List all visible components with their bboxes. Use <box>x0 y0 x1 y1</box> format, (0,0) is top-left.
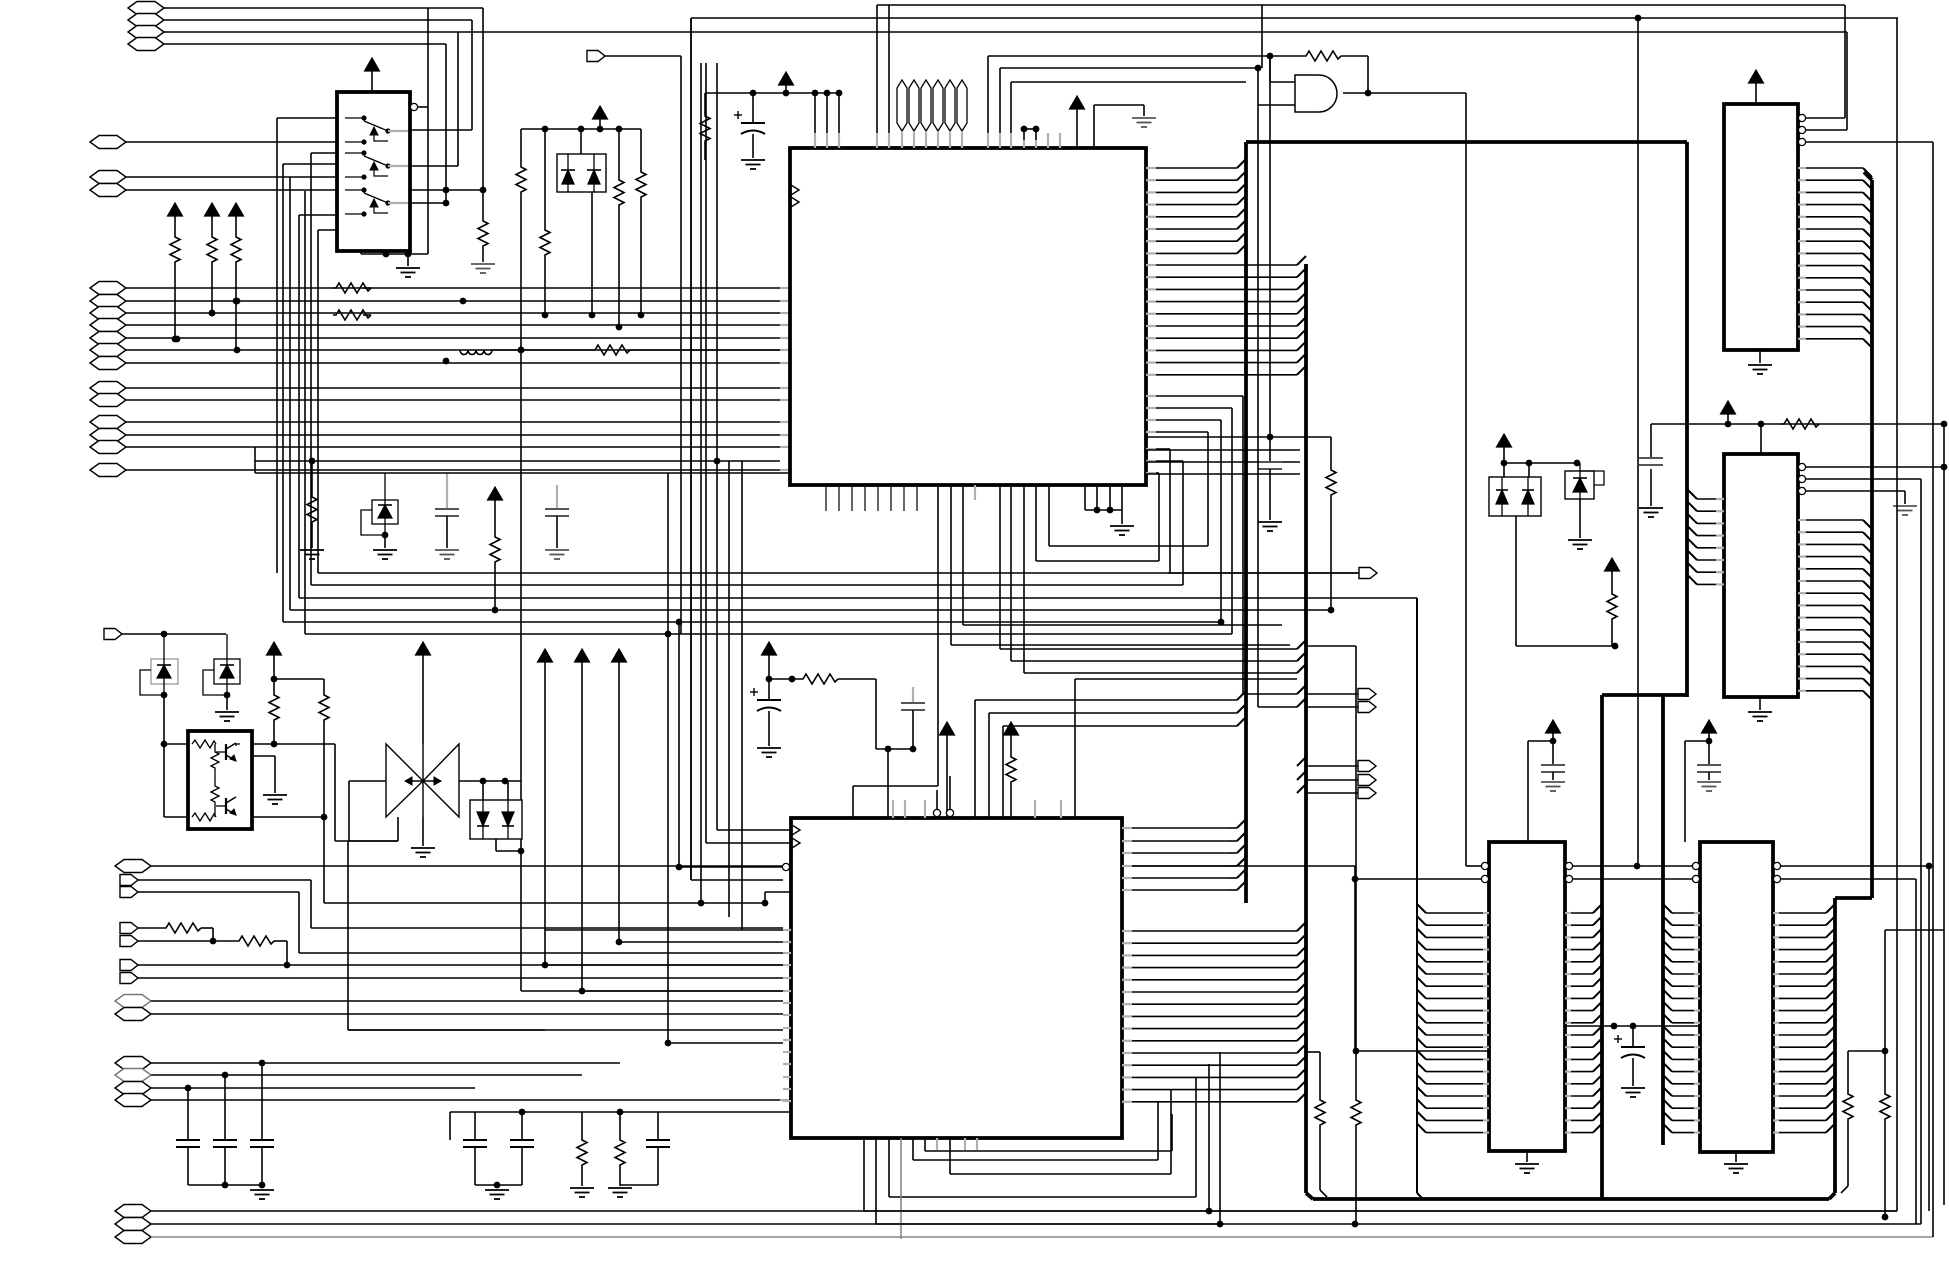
capacitor C13 <box>1697 741 1721 780</box>
connector J22 <box>115 860 1358 883</box>
ground R25 <box>570 1188 594 1197</box>
pin bubbles U4 <box>1798 463 1944 504</box>
wire net row 866 <box>1573 863 1932 870</box>
power arrow VCC U6 <box>1546 720 1561 744</box>
wire U1 out5 <box>410 202 447 204</box>
power arrow VCC D1 <box>593 106 608 129</box>
resistor R26 <box>615 1112 625 1186</box>
resistor R7 <box>207 235 217 316</box>
triac Q2 <box>386 744 459 817</box>
connector J33 <box>115 1082 475 1095</box>
capacitor C5 <box>213 1075 237 1188</box>
wire <box>1075 679 1297 818</box>
wire v668 <box>667 473 669 634</box>
wire C4 gnd rail <box>188 1185 262 1188</box>
zener box D4 <box>140 634 178 698</box>
wire v701 <box>698 63 705 906</box>
fan wire <box>1146 396 1297 694</box>
power rail caps U5 <box>762 642 801 700</box>
ground wire <box>1893 506 1917 515</box>
connector J14 <box>90 357 790 370</box>
bus entries U4 right <box>1798 520 1872 700</box>
off-page arrow OP2 <box>1306 689 1376 700</box>
crystal pins U2 <box>897 80 967 148</box>
resistor R13 <box>700 114 710 160</box>
resistor R5 <box>636 170 646 318</box>
wire <box>704 93 706 114</box>
wire <box>1685 741 1709 842</box>
wire v691 <box>691 18 783 880</box>
ground U2 bottom <box>1110 526 1134 535</box>
wire D1 out <box>589 192 596 318</box>
wire Q2 left loop <box>349 781 398 841</box>
off-page arrow OP5 <box>1306 775 1376 786</box>
bus entries U6 right <box>1565 904 1602 1133</box>
connector J24 <box>120 887 783 954</box>
IC U7 <box>1700 842 1773 1152</box>
resistor R21 inline <box>163 923 216 944</box>
wire U2 bot gnd <box>1085 485 1122 524</box>
connector J3 <box>128 26 1847 39</box>
wire Q2 right <box>459 778 521 785</box>
wire net row 879 <box>1355 863 1916 1051</box>
wire U5 pin4 <box>762 892 791 906</box>
power arrow VCC V7 <box>612 649 627 945</box>
connector J6 <box>90 171 337 184</box>
ground R26 <box>608 1188 632 1197</box>
capacitor C10 <box>494 1112 534 1188</box>
wire <box>1915 879 1917 1224</box>
capacitor C15 <box>435 473 459 559</box>
power arrow VCC Q2 <box>416 642 431 744</box>
wire bottom right <box>1211 1210 1897 1212</box>
connector J26 <box>120 936 236 947</box>
bus left vertical <box>1244 142 1248 903</box>
IC U3 <box>1724 104 1798 350</box>
wire <box>1011 82 1246 148</box>
capacitor C8 <box>876 687 925 818</box>
wire <box>989 704 1246 818</box>
bus wire row <box>318 572 1358 574</box>
pin bubbles U5 top <box>933 776 953 817</box>
power arrow VCC R6 <box>168 203 183 235</box>
wire loop right <box>1941 421 1948 471</box>
connector J17 <box>90 416 790 429</box>
capacitor C9 <box>463 1112 487 1185</box>
junction <box>174 298 467 365</box>
power arrow VCC R18 <box>488 487 503 535</box>
bus vertical 1872 <box>1835 172 1872 898</box>
power arrow VCC R8 <box>229 203 244 235</box>
electrolytic cap C14 + <box>1565 1023 1700 1086</box>
wire v717 <box>716 63 718 830</box>
pin bubbles U7 <box>1692 862 1780 882</box>
wire v742 <box>741 461 743 930</box>
power arrow VCC R19 <box>267 642 282 682</box>
resistor R1 <box>478 219 488 262</box>
capacitor C3 <box>1639 458 1663 506</box>
bus entries U2 right top <box>1146 159 1246 253</box>
bus wire row <box>290 607 1334 614</box>
resistor R23 <box>1006 755 1016 818</box>
ground C12 <box>1541 782 1565 791</box>
wire <box>1021 126 1028 148</box>
IC U4 <box>1724 454 1798 697</box>
wire R5 <box>640 129 642 170</box>
connector J20 <box>90 464 790 477</box>
wire <box>1003 717 1246 818</box>
resistor R28 <box>1351 1051 1361 1224</box>
bus entries U2 right to 1306 <box>1146 256 1306 375</box>
connector J7 <box>90 184 337 197</box>
Q1 internals <box>192 740 240 821</box>
connector J31 <box>115 1057 620 1070</box>
clock chevrons U5 <box>792 825 800 848</box>
resistor R6 <box>170 235 180 342</box>
wire bundle v <box>318 230 337 573</box>
wire 1356 cont <box>1306 645 1356 647</box>
wire <box>348 841 545 1030</box>
inductor L1 inline <box>460 347 592 355</box>
ground U2 top <box>1132 118 1156 127</box>
resistor R18 <box>490 535 500 610</box>
wire R4 <box>618 129 620 178</box>
wires U5 bottom <box>864 1052 1220 1224</box>
wire gray drop <box>900 1138 902 1239</box>
wire U2 right long <box>1146 434 1331 468</box>
wire <box>1848 930 1944 1054</box>
wire 1356 vert <box>1353 646 1489 1054</box>
ground U7 <box>1724 1152 1748 1173</box>
wire vert 1270 <box>1269 56 1271 437</box>
ground R1 <box>471 264 495 273</box>
wire row 598 <box>299 597 1417 599</box>
fan wire <box>1146 449 1170 573</box>
resistor R12 inline <box>592 345 780 355</box>
wire <box>1846 32 1848 130</box>
ground C14 <box>1621 1088 1645 1097</box>
resistor R17 <box>1607 592 1617 646</box>
switch S1 <box>345 115 408 144</box>
wire D2 rail <box>1501 460 1581 467</box>
connector J5 <box>90 136 337 149</box>
bus top horizontal <box>1246 140 1687 144</box>
wire <box>1000 485 1024 673</box>
ground C13 <box>1697 782 1721 791</box>
wire pins <box>815 93 839 148</box>
bus entries U5 right top <box>1122 819 1246 890</box>
wire <box>255 461 790 473</box>
connector J35 <box>115 1205 1897 1218</box>
connector J1 (net in, top) <box>128 2 483 15</box>
resistor R11 inline <box>333 310 371 320</box>
wire <box>480 8 487 193</box>
connector J37 <box>115 1231 1933 1244</box>
wire <box>450 1109 791 1140</box>
wire D6 bottom <box>496 839 524 991</box>
pin bubbles U6 <box>1481 862 1572 882</box>
wire <box>1049 485 1208 546</box>
wire U1 out4 <box>410 190 483 219</box>
connector J27 <box>120 960 783 971</box>
connector J15 <box>90 382 790 395</box>
power arrow VCC U1 <box>365 58 380 92</box>
wire <box>1000 648 1297 650</box>
resistor R4 <box>614 178 624 330</box>
capacitor C6 <box>250 1063 274 1188</box>
bus entries U7 right <box>1773 904 1835 1133</box>
wire U5 pin1 <box>717 829 791 831</box>
connector J23 <box>120 875 783 929</box>
ground D3 <box>1568 540 1592 549</box>
power arrow VCC U3 <box>1749 70 1764 104</box>
wire <box>1528 741 1553 842</box>
wire Q1 gnd <box>252 756 275 793</box>
connector J13 <box>90 344 790 357</box>
ground Q1 <box>263 795 287 804</box>
bus jog horizontal <box>1602 693 1687 697</box>
power arrow VCC V6 <box>575 649 590 994</box>
wire <box>1011 660 1297 662</box>
bus entries U3 right <box>1798 168 1872 348</box>
zener diode D3 <box>1565 463 1604 499</box>
wire U1 pin <box>311 153 337 585</box>
wire <box>1024 126 1039 148</box>
wire <box>427 8 429 254</box>
wire <box>457 32 459 166</box>
border wire right 1921 <box>1920 479 1922 1224</box>
oscillator pins U2 bottom <box>826 485 917 511</box>
dual diode D2 <box>1489 463 1541 516</box>
ground C1 <box>741 160 765 169</box>
ground U1 <box>396 268 420 277</box>
pin bubbles U3 <box>1798 114 1933 145</box>
wire <box>582 990 783 992</box>
wire <box>665 1040 783 1047</box>
switch S2 <box>345 150 408 179</box>
wire U1 gnd rail <box>361 251 428 266</box>
resistor R27 <box>1315 1052 1327 1197</box>
wire vert 1258 <box>1258 105 1297 707</box>
microcontroller U2 <box>790 148 1146 485</box>
wire <box>1928 866 1930 1211</box>
capacitor C1 + <box>734 93 765 158</box>
pin bubble U1 out <box>410 103 428 110</box>
fan wire <box>1146 461 1183 585</box>
input arrow J21 <box>104 629 226 640</box>
wire bundle v <box>289 177 291 610</box>
capacitor C2 <box>1258 437 1282 520</box>
bus vertical 1663 <box>1661 695 1665 1145</box>
fan wire <box>1146 420 1224 625</box>
wire G1 out <box>1343 93 1481 866</box>
wire gnd loop <box>1094 105 1144 148</box>
bus bottom horizontal <box>1306 1193 1835 1199</box>
AND gate G1 <box>1295 75 1337 112</box>
ground Q2 <box>411 848 435 857</box>
connector J16 <box>90 394 790 407</box>
capacitor C12 <box>1541 741 1565 780</box>
ground D5 <box>215 712 239 721</box>
bus vertical 1835 <box>1833 898 1837 1193</box>
power arrow VCC V5 <box>538 649 553 968</box>
wire top run <box>691 18 1898 880</box>
resistor R24 inline <box>800 674 876 749</box>
connector J9 <box>90 295 790 308</box>
wire stubs U5 top <box>893 800 1061 818</box>
ground C9 <box>485 1190 509 1199</box>
wire Q1 out2 <box>252 816 324 818</box>
resistor R22 inline <box>236 936 290 968</box>
wire <box>545 964 783 966</box>
connector J34 <box>115 1094 791 1107</box>
resistor R8 <box>231 235 241 350</box>
wire U2 bot pins <box>853 485 1290 818</box>
dual diode D6 <box>470 781 522 839</box>
wire <box>1146 461 1300 463</box>
power arrow VCC U7 <box>1702 720 1717 744</box>
wire <box>348 1029 783 1031</box>
wire bundle v <box>304 191 306 634</box>
fan wire <box>1146 432 1208 546</box>
wire D5 gnd <box>226 695 228 710</box>
bus vertical 1602 <box>1600 695 1604 1199</box>
wire <box>255 447 780 464</box>
resistor R9 <box>307 461 317 548</box>
resistor R25 <box>577 1112 587 1186</box>
connector J10 <box>90 307 790 320</box>
wire <box>1036 485 1159 561</box>
off-page arrow OP3 <box>1306 702 1376 713</box>
connector J29 <box>115 995 783 1008</box>
ground C3 <box>1639 508 1663 517</box>
bus wire row <box>283 619 1221 867</box>
wire Q2 gnd <box>422 817 424 846</box>
wire D2 bottom <box>1516 516 1618 649</box>
bus wire row <box>305 631 1232 1043</box>
capacitor C16 <box>545 485 569 559</box>
wire <box>1000 65 1261 148</box>
bus entries U6 left <box>1417 904 1489 1133</box>
zener box D5 <box>203 634 240 698</box>
resistor R10 inline <box>333 283 371 293</box>
wire bundle v <box>283 164 337 622</box>
analog switch U1 <box>337 92 410 251</box>
resistor R20 <box>319 693 765 903</box>
fan wire <box>1146 408 1232 634</box>
wire <box>1146 473 1300 475</box>
bus entries U7 left <box>1663 904 1700 1133</box>
clock pin chevrons U2 <box>791 185 799 207</box>
capacitor C4 <box>176 1088 200 1185</box>
wire Q1 left <box>164 744 188 817</box>
wire U2 top rail <box>705 90 842 97</box>
bus wire row <box>311 584 1183 586</box>
resistor R14 feedback <box>1270 51 1371 96</box>
wire C9 rail <box>475 1185 522 1188</box>
wire <box>1306 1051 1320 1053</box>
ground C4 <box>250 1190 274 1199</box>
dual diode D1 <box>557 129 606 192</box>
power arrow VCC U2 <box>779 72 794 93</box>
off-page arrow OP7 <box>1168 568 1377 579</box>
connector J2 <box>128 14 472 27</box>
supply rail <box>521 126 641 133</box>
pin bubble U5 <box>676 863 790 870</box>
resistor R19 <box>269 679 279 747</box>
connector J4 <box>128 38 446 51</box>
connector J8 <box>90 282 790 295</box>
border wire right 1944 <box>1943 424 1945 1205</box>
resistor R30 <box>1880 1051 1890 1220</box>
connector J12 <box>90 332 790 345</box>
ground D7 <box>373 550 397 559</box>
wire <box>988 53 1273 148</box>
ground C2 <box>1258 522 1282 531</box>
connector J32 <box>115 1069 582 1082</box>
border wire right 1897 <box>1896 18 1898 1211</box>
connector J18 <box>90 429 790 442</box>
bus vertical 1306 <box>1304 264 1308 1193</box>
ground U6 <box>1515 1151 1539 1173</box>
wire U1 out2 <box>410 129 472 131</box>
border wire right 1933 <box>1932 142 1934 1237</box>
wire U1 out3 <box>410 165 458 167</box>
power arrow VCC U4 <box>1721 401 1736 424</box>
connector J19 <box>90 441 790 454</box>
ground R9 <box>300 550 324 559</box>
wire <box>975 691 1246 818</box>
power arrow VCC U2b <box>1070 96 1085 148</box>
wire <box>619 941 783 943</box>
ground U4 <box>1748 697 1772 721</box>
connector J28 <box>120 973 783 984</box>
wire top run y6 <box>1262 5 1845 118</box>
power arrow VCC R7 <box>205 203 220 235</box>
wire <box>443 44 450 206</box>
transistor pair Q1 <box>188 731 252 829</box>
ground U3 <box>1748 350 1772 374</box>
connector J36 <box>115 1218 1921 1231</box>
off-page arrow OP6 <box>1306 788 1376 799</box>
off-page arrow OP1 <box>587 51 681 635</box>
wire U1 pin <box>277 118 337 573</box>
bus entries U4 left <box>1688 490 1724 584</box>
wire <box>1635 15 1642 866</box>
wire R19/R20 rail <box>274 679 324 693</box>
wire R3 <box>544 129 546 228</box>
microcontroller U5 <box>791 818 1122 1138</box>
capacitor C11 <box>620 1112 670 1185</box>
zener box D7 <box>361 473 398 548</box>
connector J30 <box>115 1008 783 1021</box>
wire <box>545 929 783 931</box>
resistor R2 <box>516 165 526 851</box>
capacitor C7 + <box>750 688 781 746</box>
wire G1 in2 <box>1258 68 1295 105</box>
wire R2 <box>520 129 522 165</box>
supply wire <box>1651 421 1944 458</box>
wire U5 pin2 <box>706 63 791 843</box>
bus right vertical <box>1685 142 1689 697</box>
switch S3 <box>345 187 408 216</box>
off-page arrow OP4 <box>1306 761 1376 772</box>
connector J25 <box>120 923 163 934</box>
connector J11 <box>90 319 790 332</box>
wire <box>471 20 473 130</box>
bus entries 1306 top <box>1297 640 1306 673</box>
bus entry <box>1297 685 1306 793</box>
